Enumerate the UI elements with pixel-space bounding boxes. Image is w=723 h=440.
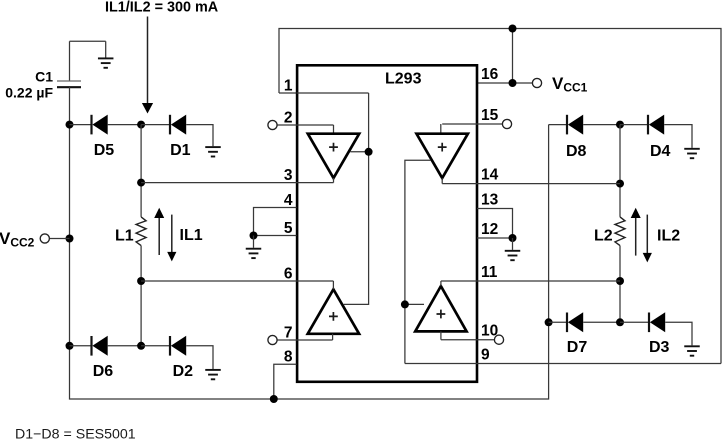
wire EN2 chain from A2 tap down to pin9 row (405, 160, 431, 363)
wire node to D3 cathode (620, 321, 649, 323)
ground near D4 (684, 148, 700, 158)
svg-text:14: 14 (481, 166, 499, 183)
wire pin10 stub to terminal (477, 339, 494, 341)
wire pin10 net into A4 input (441, 339, 477, 341)
junction pin13/pin12 ground (509, 234, 517, 242)
wire node to D4 cathode (620, 124, 648, 126)
svg-text:6: 6 (284, 265, 293, 282)
junction pin4/pin5 ground (250, 232, 258, 240)
diode D8 (567, 115, 583, 135)
wire rail to D7 cathode (549, 321, 567, 323)
wire pin3 net to L1 (141, 182, 333, 184)
junction EN1 node (365, 148, 373, 156)
wire D5 node down to L1 (140, 125, 142, 217)
diode D4 (648, 115, 664, 135)
wire pin11 net to L2 (441, 280, 620, 282)
wire pin2 net into buffer A1 input (277, 124, 333, 126)
wire D5 anode to node (108, 124, 141, 126)
wire D1 anode to ground (186, 125, 213, 147)
ground near D3 (684, 345, 700, 355)
diode D1 (170, 115, 186, 135)
junction D8/D4/L2 (616, 121, 624, 129)
op-amp buffer A1 (308, 134, 359, 178)
wire L1 to D6 node (140, 246, 142, 346)
ground near D2 (205, 369, 221, 379)
junction D5/D1/L1 (137, 121, 145, 129)
svg-text:13: 13 (481, 191, 499, 208)
op-amp buffer A3 (308, 289, 359, 334)
svg-text:16: 16 (481, 66, 499, 83)
wire A3 output stub (332, 281, 334, 289)
svg-text:5: 5 (284, 220, 293, 237)
wire Vcc2 terminal to rail (50, 238, 70, 240)
junction L2 / pin11 net (616, 277, 624, 285)
wire pin15 net into buffer A2 input (442, 123, 477, 125)
terminal pin15 open circle (502, 119, 511, 128)
svg-text:9: 9 (481, 346, 490, 363)
wire pin10 rise to A4 (440, 331, 442, 339)
svg-text:11: 11 (481, 264, 498, 281)
op-amp IC U1 L293 body (297, 65, 477, 382)
wire pin 16 stub to Vcc1 terminal (477, 82, 532, 84)
wire pin9 net to right rail (405, 363, 721, 365)
wire D3 anode to ground (665, 322, 692, 345)
wire D7 anode to node (583, 321, 620, 323)
junction L1 / pin3 net (137, 179, 145, 187)
wire pin6 net to L1 (141, 280, 333, 282)
wire D8 anode to node (583, 124, 620, 126)
diode D5 (92, 115, 108, 135)
inductor L1 (136, 217, 146, 246)
wire pin13 to pin12 junction (477, 209, 513, 239)
svg-text:8: 8 (284, 349, 293, 366)
ground near C1 (98, 41, 114, 68)
svg-text:4: 4 (284, 192, 293, 209)
wire pin1-EN top rail to right rail down to pin9 row (279, 29, 721, 364)
wire node to D2 cathode (141, 345, 170, 347)
wire A1 output stub (333, 178, 335, 183)
op-amp buffer A2 (417, 134, 468, 178)
wire C1 to ground arm (70, 40, 106, 42)
svg-text:0.22 µF: 0.22 µF (5, 85, 53, 101)
arrow IL1 up (154, 208, 164, 255)
junction top rail / Vcc1 drop (509, 25, 517, 33)
arrow IL1/IL2 into D5-D1 node (142, 17, 153, 114)
inductor L2 (615, 217, 625, 246)
diode D7 (567, 312, 583, 332)
wire pin14 net to L2 (442, 183, 620, 185)
wire pin7 net into A3 input (277, 339, 332, 341)
svg-text:1: 1 (284, 77, 293, 94)
wire pin4 to pin5 junction (254, 208, 297, 236)
arrow IL2 up (631, 208, 641, 256)
ground pins 13-12 (505, 238, 521, 260)
wire EN1 chain down to A3 tap (344, 93, 369, 304)
ground pins 4-5 (246, 236, 262, 259)
svg-text:D3: D3 (649, 339, 670, 356)
wire pin2 drop to A1 (333, 125, 335, 134)
svg-text:D1: D1 (170, 142, 191, 159)
wire pin15 drop to A2 (440, 124, 442, 134)
wire pin12 stub (477, 237, 513, 239)
svg-text:D6: D6 (93, 363, 114, 380)
junction rail / D7 (545, 318, 553, 326)
svg-text:D8: D8 (566, 143, 587, 160)
arrow IL1 down (167, 215, 176, 262)
diode D6 (92, 336, 108, 356)
svg-text:IL2: IL2 (657, 227, 680, 244)
diode D2 (170, 336, 186, 356)
terminal Vcc2 open circle (40, 234, 49, 243)
wire D2 anode to ground (186, 346, 213, 369)
terminal Vcc1 open circle (532, 78, 541, 87)
svg-text:IL1/IL2 = 300 mA: IL1/IL2 = 300 mA (105, 0, 219, 16)
wire top rail drop to pin 16 (512, 29, 514, 84)
svg-text:D1−D8 = SES5001: D1−D8 = SES5001 (15, 427, 136, 440)
svg-text:D4: D4 (650, 143, 671, 160)
terminal pin7 open circle (268, 335, 277, 344)
wire A2 output stub (441, 178, 443, 184)
ground near D1 (205, 146, 221, 156)
svg-text:7: 7 (284, 324, 293, 341)
terminal pin2 open circle (268, 120, 277, 129)
wire rail to D6 cathode (70, 345, 92, 347)
wire D6 anode to node (108, 345, 141, 347)
wire pin1 net inside IC (297, 92, 369, 94)
wire C1 top lead (69, 41, 71, 81)
svg-text:3: 3 (284, 167, 293, 184)
junction D7/D3/L2 (616, 318, 624, 326)
wire A4 output stub (440, 281, 442, 286)
wire rail to D8 cathode (549, 124, 567, 126)
junction left rail / D5 (66, 121, 74, 129)
junction pin16 / Vcc1 (509, 79, 517, 87)
junction L1 / pin6 net (137, 277, 145, 285)
svg-text:C1: C1 (35, 68, 53, 84)
diode D3 (649, 312, 665, 332)
wire bottom rail up to D8 (70, 125, 549, 399)
svg-text:12: 12 (481, 221, 498, 238)
wire C1 bottom lead to D5 node (69, 87, 71, 124)
svg-text:D2: D2 (173, 363, 194, 380)
wire D8 node down to L2 (619, 125, 621, 217)
svg-text:2: 2 (284, 109, 293, 126)
svg-text:L293: L293 (385, 71, 422, 88)
wire node to D1 cathode (141, 124, 170, 126)
wire left rail Vcc2 (69, 125, 71, 346)
wire L2 to D7 node (619, 246, 621, 323)
wire D4 anode to ground (664, 125, 692, 148)
wire pin 1 stub (279, 92, 297, 94)
wire A1 enable tap (350, 151, 368, 153)
wire pin5 stub (254, 235, 297, 237)
junction D6/D2/L1 (137, 342, 145, 350)
wire rail to D5 cathode (70, 124, 92, 126)
svg-text:D5: D5 (94, 142, 115, 159)
terminal pin10 open circle (494, 335, 503, 344)
junction Vcc2 tap (66, 235, 74, 243)
svg-text:15: 15 (481, 107, 499, 124)
wire pin7 rise to A3 (332, 334, 334, 340)
wire A4 enable tap (405, 303, 424, 305)
svg-text:L2: L2 (594, 228, 613, 245)
svg-text:IL1: IL1 (180, 227, 203, 244)
svg-text:D7: D7 (567, 339, 588, 356)
junction pin8 / bottom rail (270, 395, 278, 403)
junction left rail / D6 (66, 342, 74, 350)
arrow IL2 down (643, 215, 652, 263)
junction L2 / pin14 net (616, 180, 624, 188)
svg-text:10: 10 (481, 323, 498, 340)
wire pin15 stub to terminal (477, 123, 502, 125)
svg-text:L1: L1 (115, 227, 134, 244)
junction EN2 node (401, 300, 409, 308)
wire pin8 down to bottom rail (274, 364, 297, 399)
op-amp buffer A4 (415, 286, 466, 331)
capacitor C1 (57, 81, 81, 87)
